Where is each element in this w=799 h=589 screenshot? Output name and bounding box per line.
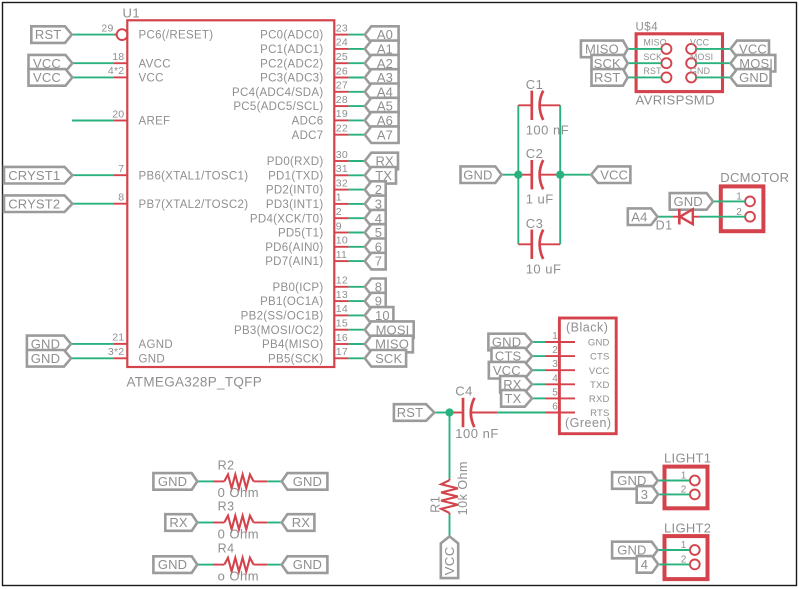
svg-text:ADC6: ADC6 xyxy=(292,116,324,128)
FTDI pin 6 RTS xyxy=(546,412,576,414)
svg-text:0 Ohm: 0 Ohm xyxy=(218,526,260,541)
net flag 8 (y=286.8) xyxy=(365,279,386,296)
wire U1 pin 31 to flag TX xyxy=(349,174,365,176)
net flag GND (U$4 right) xyxy=(731,69,771,86)
wire GND flag to LIGHT2 pin 1 xyxy=(658,549,690,551)
net flag CRYST2 (y=203.7) xyxy=(4,195,72,212)
svg-text:4*2: 4*2 xyxy=(108,65,124,77)
svg-text:PC0(ADC0): PC0(ADC0) xyxy=(260,30,323,42)
net flag MISO (y=344.0) xyxy=(365,336,413,353)
svg-text:PB4(MISO): PB4(MISO) xyxy=(262,339,324,351)
LIGHT2 pin 2 xyxy=(690,560,700,570)
svg-text:PC2(ADC2): PC2(ADC2) xyxy=(260,58,323,70)
svg-text:PD6(AIN0): PD6(AIN0) xyxy=(265,242,323,254)
net flag TX (FTDI) xyxy=(501,390,532,407)
net flag A3 (y=77.5) xyxy=(365,69,399,86)
svg-text:GND: GND xyxy=(158,557,187,572)
svg-text:PD1(TXD): PD1(TXD) xyxy=(268,170,323,182)
U1 pin 21 AGND xyxy=(113,343,127,345)
net flag 4 (LIGHT2) xyxy=(637,556,659,573)
net flag GND (FTDI) xyxy=(488,334,532,351)
wire 3 flag to LIGHT1 pin 2 xyxy=(658,493,690,495)
wire R2 to GND flag xyxy=(267,480,282,482)
svg-text:27: 27 xyxy=(336,80,348,92)
svg-text:U1: U1 xyxy=(123,6,141,21)
net flag GND (LIGHT2) xyxy=(612,542,658,559)
wire MISO flag to U$4 xyxy=(628,48,662,50)
U1 pin 24 PC1(ADC1) xyxy=(334,48,348,50)
svg-text:GND: GND xyxy=(588,338,610,349)
U1 pin 23 PC0(ADC0) xyxy=(334,34,348,36)
FTDI pin 2 CTS xyxy=(546,355,576,357)
wire VCC to U1 pin 4*2 xyxy=(72,76,113,78)
wire GND flag to R4 xyxy=(197,564,213,566)
svg-text:0 Ohm: 0 Ohm xyxy=(218,485,260,500)
U1 pin 28 PC5(ADC5/SCL) xyxy=(334,105,348,107)
U1 pin 9 PD5(T1) xyxy=(334,232,348,234)
net flag GND (R4 left) xyxy=(153,556,197,573)
wire GND flag to DCMOTOR pin 1 xyxy=(713,200,745,202)
LIGHT1 pin 2 xyxy=(690,490,700,500)
wire U1 pin 19 to flag A6 xyxy=(349,119,365,121)
svg-text:PD7(AIN1): PD7(AIN1) xyxy=(265,256,323,268)
connector FTDI body xyxy=(559,318,616,434)
svg-text:4: 4 xyxy=(641,557,648,572)
net flag GND (DCMOTOR) xyxy=(670,193,713,210)
svg-text:VCC: VCC xyxy=(690,38,710,48)
svg-text:PD5(T1): PD5(T1) xyxy=(278,228,324,240)
U1 pin 11 PD7(AIN1) xyxy=(334,260,348,262)
svg-text:PD3(INT1): PD3(INT1) xyxy=(266,199,324,211)
U$4 pad MOSI (right, y=63.2) xyxy=(686,58,696,68)
svg-text:18: 18 xyxy=(112,51,124,63)
svg-text:CTS: CTS xyxy=(590,352,610,363)
svg-text:21: 21 xyxy=(112,332,124,344)
svg-text:RXD: RXD xyxy=(589,394,610,405)
net flag RST (U$4 left) xyxy=(592,69,628,86)
svg-text:GND: GND xyxy=(158,474,187,489)
svg-text:A7: A7 xyxy=(377,127,393,142)
wire U1 pin 28 to flag A5 xyxy=(349,105,365,107)
U1 pin 30 PD0(RXD) xyxy=(334,160,348,162)
svg-text:MISO: MISO xyxy=(644,38,667,48)
svg-text:VCC: VCC xyxy=(442,546,457,575)
wire U1 pin 10 to flag 6 xyxy=(349,246,365,248)
net flag 3 (LIGHT1) xyxy=(637,486,659,503)
wire junction down to R1 xyxy=(449,413,451,479)
wire C4 to FTDI pin 6 RTS xyxy=(497,412,546,414)
svg-text:A4: A4 xyxy=(631,209,647,224)
net flag 4 (y=218.2) xyxy=(365,210,386,227)
wire GND flag to FTDI xyxy=(532,341,546,343)
junction RST/C4/R1 xyxy=(445,408,453,416)
FTDI pin 5 RXD xyxy=(546,397,576,399)
svg-text:VCC: VCC xyxy=(139,73,164,85)
wire U1 pin 32 to flag 2 xyxy=(349,189,365,191)
net flag GND (R2 left) xyxy=(153,473,197,490)
svg-text:PB5(SCK): PB5(SCK) xyxy=(268,353,323,365)
wire C2 right to VCC flag xyxy=(560,174,591,176)
U1 pin 8 PB7(XTAL2/TOSC2) xyxy=(113,203,127,205)
wire VCC rail (right vertical bus of C1-C3) xyxy=(559,105,561,244)
svg-text:R3: R3 xyxy=(218,500,235,514)
svg-text:R1: R1 xyxy=(429,496,443,513)
wire stub on U1 pin 20 AREF (unlabeled net) xyxy=(72,120,113,122)
svg-text:PB2(SS/OC1B): PB2(SS/OC1B) xyxy=(241,311,324,323)
wire VCC to U1 pin 18 xyxy=(72,62,113,64)
svg-text:2: 2 xyxy=(336,206,342,218)
U1 pin 18 AVCC xyxy=(113,62,127,64)
svg-text:25: 25 xyxy=(336,51,348,63)
svg-text:19: 19 xyxy=(336,108,348,120)
net flag A6 (y=120.4) xyxy=(365,112,399,129)
wire U1 pin 9 to flag 5 xyxy=(349,232,365,234)
wire RST flag to junction xyxy=(434,412,449,414)
svg-text:3*2: 3*2 xyxy=(108,346,124,358)
svg-text:AVRISPSMD: AVRISPSMD xyxy=(636,93,715,108)
wire RX flag to FTDI xyxy=(532,383,546,385)
svg-text:TX: TX xyxy=(504,391,521,406)
U1 pin 12 PB0(ICP) xyxy=(334,286,348,288)
connector U$4 AVRISPSMD body xyxy=(636,34,722,92)
U1 pin 17 PB5(SCK) xyxy=(334,357,348,359)
net flag CRYST1 (y=175.2) xyxy=(4,167,72,184)
svg-text:GND: GND xyxy=(293,474,322,489)
svg-text:C1: C1 xyxy=(526,77,544,92)
U1 pin 3*2 GND xyxy=(113,357,127,359)
wire U1 pin 30 to flag RX xyxy=(349,160,365,162)
svg-text:PC1(ADC1): PC1(ADC1) xyxy=(260,44,323,56)
svg-text:CRYST1: CRYST1 xyxy=(8,168,60,183)
svg-text:SCK: SCK xyxy=(375,351,402,366)
net flag MOSI (U$4 right) xyxy=(731,55,776,72)
net flag GND (y=343.9) xyxy=(27,336,71,353)
svg-text:PB3(MOSI/OC2): PB3(MOSI/OC2) xyxy=(234,325,324,337)
svg-text:PC4(ADC4/SDA): PC4(ADC4/SDA) xyxy=(232,87,323,99)
wire U1 pin 12 to flag 8 xyxy=(349,286,365,288)
wire U1 pin 1 to flag 3 xyxy=(349,203,365,205)
svg-text:PB0(ICP): PB0(ICP) xyxy=(273,282,324,294)
U1 pin 26 PC3(ADC3) xyxy=(334,77,348,79)
junction right rail at C2 xyxy=(556,171,564,179)
junction left rail at C2 xyxy=(514,171,522,179)
svg-text:RST: RST xyxy=(644,66,663,76)
svg-text:RX: RX xyxy=(292,515,311,530)
svg-text:1 uF: 1 uF xyxy=(526,192,554,207)
net flag A4 (y=91.80000000000001) xyxy=(365,84,399,101)
capacitor C4 100 nF xyxy=(450,412,464,414)
net flag MOSI (y=329.70000000000005) xyxy=(365,321,414,338)
svg-text:PC5(ADC5/SCL): PC5(ADC5/SCL) xyxy=(233,101,323,113)
svg-text:10: 10 xyxy=(336,235,348,247)
net flag VCC (U$4 right) xyxy=(731,41,770,58)
net flag 2 (y=189.6) xyxy=(365,181,386,198)
svg-text:3: 3 xyxy=(552,359,558,370)
DCMOTOR pin 1 xyxy=(745,197,755,207)
svg-text:28: 28 xyxy=(336,94,348,106)
svg-text:20: 20 xyxy=(112,108,124,120)
diode D1 xyxy=(673,216,680,218)
svg-text:AVCC: AVCC xyxy=(139,58,171,70)
svg-text:PB1(OC1A): PB1(OC1A) xyxy=(260,296,323,308)
svg-text:VCC: VCC xyxy=(600,167,628,182)
svg-text:MOSI: MOSI xyxy=(690,52,713,62)
wire U1 pin 13 to flag 9 xyxy=(349,300,365,302)
svg-text:(Black): (Black) xyxy=(566,321,608,335)
svg-text:GND: GND xyxy=(739,70,768,85)
svg-text:GND: GND xyxy=(139,353,165,365)
wire TX flag to FTDI xyxy=(532,397,546,399)
wire U1 pin 2 to flag 4 xyxy=(349,217,365,219)
wire CRYST2 to U1 pin 8 xyxy=(72,203,113,205)
net flag 3 (y=203.9) xyxy=(365,196,386,213)
wire R4 to GND flag xyxy=(267,564,282,566)
wire VCC flag to FTDI xyxy=(532,369,546,371)
svg-text:4: 4 xyxy=(552,373,558,384)
net flag GND (LIGHT1) xyxy=(612,472,658,489)
svg-text:GND: GND xyxy=(463,167,492,182)
U1 pin 10 PD6(AIN0) xyxy=(334,246,348,248)
wire U1 pin 14 to flag 10 xyxy=(349,314,365,316)
wire A4 flag to diode D1 xyxy=(658,216,673,218)
U$4 pad MISO (left, y=48.9) xyxy=(661,44,671,54)
svg-text:22: 22 xyxy=(336,123,348,135)
U$4 pad SCK (left, y=63.2) xyxy=(661,58,671,68)
wire GND rail (left vertical bus of C1-C3) xyxy=(517,105,519,244)
wire U1 pin 15 to flag MOSI xyxy=(349,329,365,331)
svg-text:C3: C3 xyxy=(526,216,544,231)
U1 pin 19 ADC6 xyxy=(334,119,348,121)
svg-text:GND: GND xyxy=(293,557,322,572)
net flag VCC (caps) xyxy=(591,166,630,183)
wire CTS flag to FTDI xyxy=(532,355,546,357)
net flag GND (y=358.3) xyxy=(27,350,71,367)
wire GND flag to LIGHT1 pin 1 xyxy=(658,480,690,482)
svg-text:RST: RST xyxy=(594,70,620,85)
wire SCK flag to U$4 xyxy=(628,62,662,64)
net flag 5 (y=232.5) xyxy=(365,224,386,241)
svg-text:SCK: SCK xyxy=(644,52,663,62)
resistor R3 0 Ohm xyxy=(213,522,224,524)
wire U1 pin 11 to flag 7 xyxy=(349,260,365,262)
net flag RX (FTDI) xyxy=(500,376,532,393)
svg-text:PD0(RXD): PD0(RXD) xyxy=(267,156,324,168)
svg-text:32: 32 xyxy=(336,177,348,189)
svg-text:8: 8 xyxy=(118,192,124,204)
wire CRYST1 to U1 pin 7 xyxy=(72,174,113,176)
net flag VCC (below R1) xyxy=(441,536,458,578)
net flag GND (R4 right) xyxy=(282,556,328,573)
svg-text:26: 26 xyxy=(336,65,348,77)
net flag VCC (y=63.2) xyxy=(29,55,73,72)
net flag A0 (y=34.6) xyxy=(365,26,399,43)
svg-text:12: 12 xyxy=(336,275,348,287)
net flag 9 (y=301.1) xyxy=(365,293,386,310)
svg-text:7: 7 xyxy=(375,254,382,269)
wire R3 to RX flag xyxy=(267,522,282,524)
svg-text:10 uF: 10 uF xyxy=(526,261,562,276)
svg-text:RX: RX xyxy=(169,515,188,530)
wire U1 pin 24 to flag A1 xyxy=(349,48,365,50)
connector LIGHT2 body xyxy=(665,536,708,579)
svg-text:PC3(ADC3): PC3(ADC3) xyxy=(260,73,323,85)
wire U1 pin 16 to flag MISO xyxy=(349,343,365,345)
U$4 pad RST (left, y=77.4) xyxy=(661,72,671,82)
svg-text:ADC7: ADC7 xyxy=(292,130,324,142)
FTDI pin 4 TXD xyxy=(546,383,576,385)
svg-text:U$4: U$4 xyxy=(636,22,659,34)
net flag RX (R3 right) xyxy=(282,514,315,531)
U1 pin 32 PD2(INT0) xyxy=(334,189,348,191)
wire GND to U1 pin 3*2 xyxy=(71,357,113,359)
capacitor C1 100 nF xyxy=(518,104,532,106)
svg-text:1: 1 xyxy=(336,192,342,204)
net flag 7 (y=261.1) xyxy=(365,253,386,270)
wire U1 pin 22 to flag A7 xyxy=(349,134,365,136)
svg-text:R2: R2 xyxy=(218,459,235,473)
net flag VCC (y=77.4) xyxy=(29,69,73,86)
svg-text:ATMEGA328P_TQFP: ATMEGA328P_TQFP xyxy=(127,375,263,390)
svg-text:14: 14 xyxy=(336,303,348,315)
net flag RST (y=34.6) xyxy=(31,26,72,43)
net flag GND (caps) xyxy=(461,166,502,183)
capacitor C3 10 uF xyxy=(518,243,532,245)
svg-text:10k Ohm: 10k Ohm xyxy=(456,461,470,515)
net flag TX (y=175.3) xyxy=(365,167,396,184)
svg-text:31: 31 xyxy=(336,163,348,175)
wire RST flag to U$4 xyxy=(628,76,662,78)
wire U$4 to VCC flag xyxy=(696,48,730,50)
svg-text:LIGHT1: LIGHT1 xyxy=(664,451,711,466)
net flag RX (R3 left) xyxy=(165,514,197,531)
svg-text:D1: D1 xyxy=(656,218,673,232)
svg-text:VCC: VCC xyxy=(589,366,610,377)
svg-text:100 nF: 100 nF xyxy=(455,426,498,441)
svg-text:PB7(XTAL2/TOSC2): PB7(XTAL2/TOSC2) xyxy=(139,199,249,211)
svg-text:2: 2 xyxy=(552,345,558,356)
svg-text:6: 6 xyxy=(552,402,558,413)
wire GND flag to C2 left xyxy=(502,174,519,176)
net flag VCC (FTDI) xyxy=(489,362,532,379)
svg-text:7: 7 xyxy=(118,163,124,175)
svg-text:100 nF: 100 nF xyxy=(526,122,569,137)
net flag 6 (y=246.8) xyxy=(365,239,386,256)
svg-text:23: 23 xyxy=(336,22,348,34)
resistor R1 10k Ohm xyxy=(449,479,451,481)
svg-text:PD4(XCK/T0): PD4(XCK/T0) xyxy=(250,213,324,225)
FTDI pin 3 VCC xyxy=(546,369,576,371)
svg-text:AREF: AREF xyxy=(139,116,171,128)
wire U$4 to MOSI flag xyxy=(696,62,730,64)
net flag SCK (U$4 left) xyxy=(592,55,628,72)
connector LIGHT1 body xyxy=(665,467,708,509)
net flag A2 (y=63.2) xyxy=(365,55,399,72)
capacitor C2 1 uF xyxy=(518,174,532,176)
svg-text:CRYST2: CRYST2 xyxy=(8,196,60,211)
svg-text:RST: RST xyxy=(35,27,61,42)
svg-text:DCMOTOR: DCMOTOR xyxy=(720,170,789,185)
net flag A1 (y=48.900000000000006) xyxy=(365,41,399,58)
U1 pin 27 PC4(ADC4/SDA) xyxy=(334,91,348,93)
U1 pin 2 PD4(XCK/T0) xyxy=(334,217,348,219)
svg-text:16: 16 xyxy=(336,332,348,344)
net flag SCK (y=358.3) xyxy=(365,350,406,367)
net flag GND (R2 right) xyxy=(282,473,328,490)
svg-text:GND: GND xyxy=(673,194,702,209)
svg-text:PD2(INT0): PD2(INT0) xyxy=(266,185,324,197)
wire RX flag to R3 xyxy=(197,522,213,524)
DCMOTOR pin 2 xyxy=(745,212,755,222)
U1 pin 25 PC2(ADC2) xyxy=(334,62,348,64)
svg-text:15: 15 xyxy=(336,318,348,330)
svg-text:o Ohm: o Ohm xyxy=(218,568,260,583)
op-amp U1 body (ATMEGA328P_TQFP ic outline) xyxy=(127,20,334,367)
wire U1 pin 27 to flag A4 xyxy=(349,91,365,93)
U1 pin 7 PB6(XTAL1/TOSC1) xyxy=(113,174,127,176)
svg-text:GND: GND xyxy=(690,66,710,76)
svg-text:PC6(/RESET): PC6(/RESET) xyxy=(139,30,214,42)
U$4 pad VCC (right, y=48.9) xyxy=(686,44,696,54)
svg-text:13: 13 xyxy=(336,289,348,301)
net flag 10 (y=315.40000000000003) xyxy=(365,307,394,324)
svg-text:24: 24 xyxy=(336,37,348,49)
svg-text:AGND: AGND xyxy=(139,339,173,351)
wire 4 flag to LIGHT2 pin 2 xyxy=(658,563,690,565)
U1 pin 13 PB1(OC1A) xyxy=(334,300,348,302)
net flag RST (C4) xyxy=(394,404,434,421)
wire U1 pin 26 to flag A3 xyxy=(349,77,365,79)
svg-text:1: 1 xyxy=(552,331,558,342)
U1 pin 15 PB3(MOSI/OC2) xyxy=(334,329,348,331)
connector DCMOTOR body xyxy=(721,186,764,231)
resistor R2 0 Ohm xyxy=(213,480,224,482)
wire diode D1 to DCMOTOR pin 2 xyxy=(700,216,746,218)
wire RST to U1 pin 29 xyxy=(72,34,115,36)
svg-text:29: 29 xyxy=(101,22,113,34)
wire R1 to VCC flag xyxy=(449,515,451,537)
svg-text:30: 30 xyxy=(336,149,348,161)
U1 pin 20 AREF xyxy=(113,120,127,122)
svg-text:11: 11 xyxy=(336,249,347,261)
LIGHT2 pin 1 xyxy=(690,545,700,555)
svg-text:LIGHT2: LIGHT2 xyxy=(664,521,711,536)
U1 pin 29 PC6(/RESET) xyxy=(115,34,117,36)
LIGHT1 pin 1 xyxy=(690,476,700,486)
net flag MISO (U$4 left) xyxy=(581,41,628,58)
svg-text:C2: C2 xyxy=(526,146,544,161)
svg-text:RTS: RTS xyxy=(590,408,609,419)
svg-text:RST: RST xyxy=(397,405,423,420)
wire U1 pin 25 to flag A2 xyxy=(349,62,365,64)
svg-text:9: 9 xyxy=(336,220,342,232)
FTDI pin 1 GND xyxy=(546,341,576,343)
svg-text:VCC: VCC xyxy=(33,70,61,85)
net flag RX (y=161.0) xyxy=(365,153,398,170)
net flag CTS (FTDI) xyxy=(492,348,533,365)
U1 pin 1 PD3(INT1) xyxy=(334,203,348,205)
net flag A5 (y=106.1) xyxy=(365,98,399,115)
svg-text:C4: C4 xyxy=(455,383,473,398)
resistor R4 o Ohm xyxy=(213,564,224,566)
svg-text:GND: GND xyxy=(31,351,60,366)
U1 pin 16 PB4(MISO) xyxy=(334,343,348,345)
wire GND flag to R2 xyxy=(197,480,213,482)
svg-text:5: 5 xyxy=(552,387,558,398)
U1 pin 4*2 VCC xyxy=(113,76,127,78)
net flag A4 xyxy=(628,208,658,225)
svg-text:PB6(XTAL1/TOSC1): PB6(XTAL1/TOSC1) xyxy=(139,170,249,182)
U$4 pad GND (right, y=77.4) xyxy=(686,72,696,82)
